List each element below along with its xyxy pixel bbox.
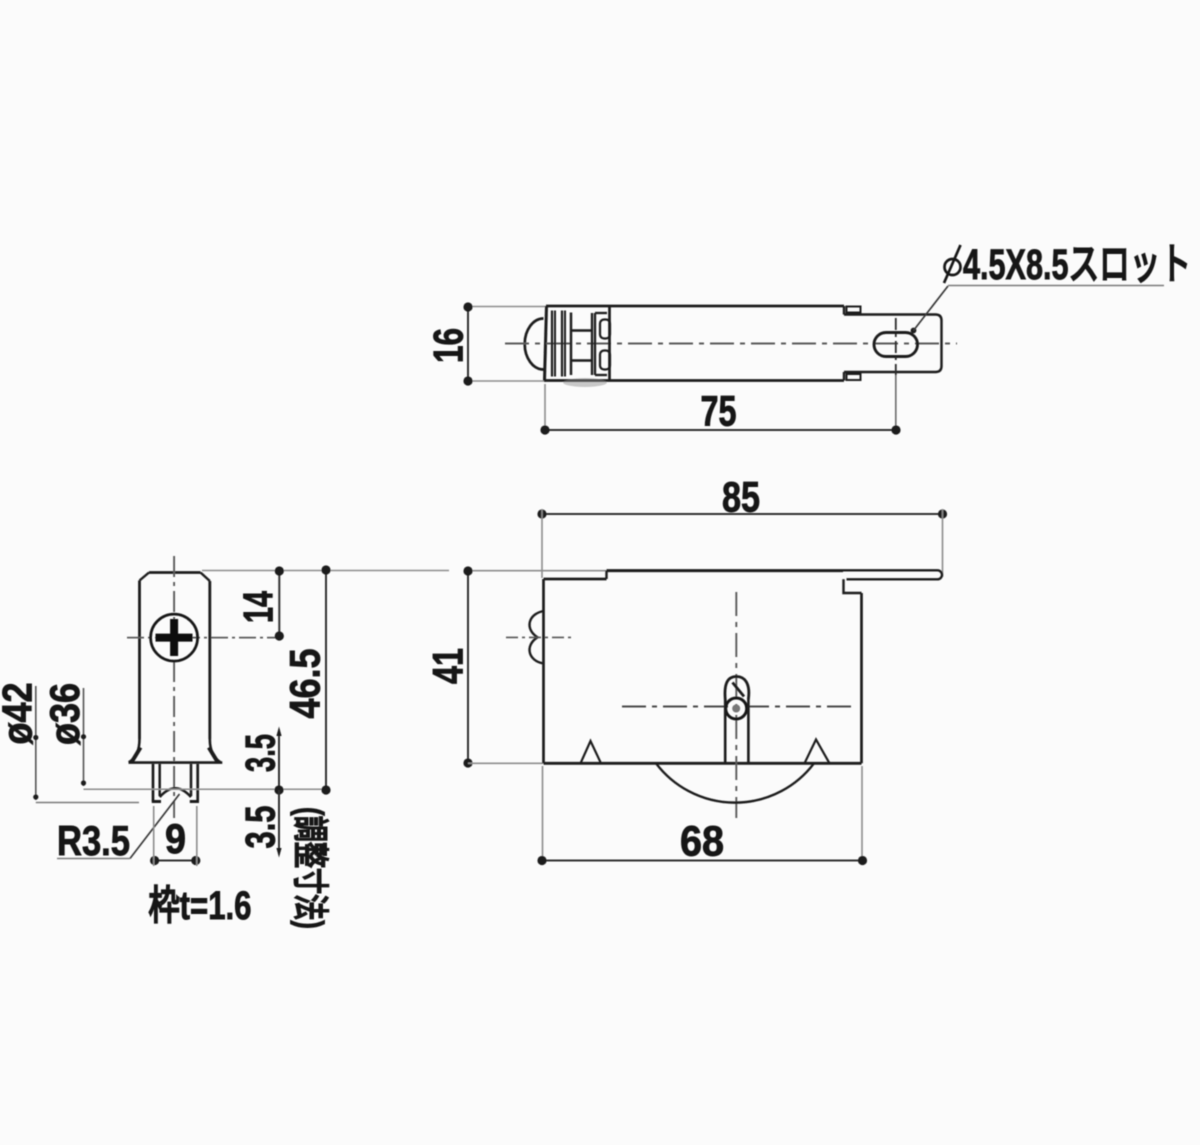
case vertical centerline (735, 592, 737, 818)
slot vertical centerline (895, 318, 897, 375)
dimension line 3.5 lower (278, 790, 280, 854)
axle top line (571, 329, 592, 332)
extension 9 right (196, 806, 198, 866)
wheel arc (656, 763, 814, 802)
post top edge (149, 571, 201, 574)
svg-text:85: 85 (722, 474, 760, 522)
svg-text:68: 68 (680, 818, 724, 866)
svg-text:75: 75 (701, 388, 737, 436)
notch arc R3.5 (160, 788, 191, 797)
pin circle (726, 698, 747, 719)
leader line (914, 286, 949, 331)
foot notch left (132, 748, 141, 762)
case top left edge (544, 578, 607, 581)
svg-text:ø42: ø42 (0, 683, 41, 745)
prong right outer (196, 764, 199, 802)
extension 85 left (541, 509, 543, 578)
screw head circle (151, 614, 198, 661)
prong left outer (152, 764, 155, 802)
extension 68 right (861, 766, 863, 864)
body bottom edge (544, 379, 844, 382)
mounting tab outline (844, 315, 942, 373)
svg-text:R3.5: R3.5 (57, 817, 130, 864)
dimension line 14 (278, 571, 280, 636)
post left edge (138, 581, 141, 740)
phi42 horizontal line (36, 802, 139, 804)
screw horizontal centerline (127, 637, 276, 639)
bracket hook upper (600, 320, 610, 339)
rim line b (554, 311, 556, 377)
svg-text:3.5: 3.5 (237, 734, 284, 772)
flange step (844, 579, 862, 593)
tab triangle left (581, 741, 602, 763)
prong left bottom (152, 800, 161, 803)
rim line d (564, 311, 566, 377)
bracket hook lower (600, 351, 610, 370)
phi symbol (945, 259, 961, 275)
channel wall left (724, 700, 727, 763)
extension 41 top (468, 570, 607, 572)
R3.5 leader (130, 794, 180, 859)
pin slash (733, 683, 745, 697)
tab triangle right (805, 740, 830, 764)
svg-text:14: 14 (235, 591, 282, 623)
step bottom (843, 372, 845, 381)
case horizontal centerline (622, 705, 851, 707)
extension 75 left (544, 384, 546, 435)
rim line c (561, 311, 563, 377)
phi42 leader vertical (35, 686, 37, 800)
axle vertical a (591, 313, 593, 375)
leader dot at slot (911, 328, 917, 334)
svg-text:3.5: 3.5 (237, 806, 284, 849)
svg-text:16: 16 (425, 328, 472, 363)
dimension line 46.5 (325, 570, 327, 790)
axle bottom line (571, 359, 592, 362)
extension 85 right (942, 509, 944, 577)
top view centerline (505, 343, 957, 345)
extension 41 bottom (468, 762, 543, 764)
slot extension down (895, 375, 897, 435)
flare left (129, 739, 140, 762)
svg-text:ø36: ø36 (41, 683, 88, 745)
prong right bottom (190, 800, 199, 803)
stamped mark top (847, 307, 861, 313)
shadow smudge (563, 378, 607, 387)
svg-text:46.5: 46.5 (282, 649, 330, 719)
phillips cross (156, 634, 193, 642)
extension top (14 and 46.5) (202, 570, 449, 572)
dimension line 85 (542, 513, 943, 515)
flare bottom (129, 761, 223, 764)
post chamfer left (140, 573, 150, 581)
housing left wall (545, 306, 547, 381)
post chamfer right (201, 573, 210, 582)
R3.5 shelf (57, 858, 130, 860)
side bump (530, 611, 544, 664)
svg-text:(調整寸法): (調整寸法) (290, 807, 331, 929)
svg-text:4.5X8.5スロット: 4.5X8.5スロット (963, 241, 1191, 289)
housing right wall (608, 306, 611, 381)
foot notch right (209, 748, 218, 762)
pin head (725, 677, 749, 702)
case bottom edge (544, 762, 862, 765)
extension line 16 bottom (468, 380, 546, 382)
stamped mark bottom (847, 374, 861, 380)
dimension line 16 (467, 307, 469, 381)
flange lip (843, 570, 942, 579)
extension line 16 top (468, 306, 549, 308)
dimension line 41 (467, 571, 469, 763)
svg-text:41: 41 (425, 648, 473, 684)
pin center dot (732, 705, 740, 713)
dimension line 9 (155, 860, 196, 862)
phi36 horizontal line (long) (84, 788, 327, 790)
case top edge (607, 569, 844, 572)
phi36 leader vertical (83, 688, 85, 786)
dimension line 75 (545, 429, 896, 431)
bracket top (595, 312, 607, 314)
prong left inner (158, 764, 161, 796)
prong right inner (190, 764, 193, 796)
axle vertical b (594, 313, 596, 375)
side bump crosshair (506, 636, 572, 638)
roller dome (525, 319, 544, 370)
dimension line 3.5 upper (278, 730, 280, 790)
extension 9 left (153, 806, 155, 866)
body top edge (546, 305, 844, 308)
rim line e (570, 313, 572, 376)
post vertical centerline (173, 556, 175, 818)
case left edge (542, 579, 545, 763)
dimension line 68 (542, 860, 863, 862)
post right edge (208, 581, 211, 739)
case top step (605, 571, 607, 579)
flare right (210, 739, 221, 762)
svg-text:9: 9 (165, 815, 186, 862)
rim line a (551, 311, 553, 377)
bracket bottom (595, 374, 607, 376)
slot 4.5x8.5 (874, 333, 918, 357)
channel wall right (747, 698, 750, 763)
svg-text:枠t=1.6: 枠t=1.6 (149, 884, 252, 928)
leader shelf (948, 285, 1164, 287)
case right edge (860, 593, 863, 763)
extension 68 left (542, 766, 544, 864)
step top (843, 306, 845, 315)
